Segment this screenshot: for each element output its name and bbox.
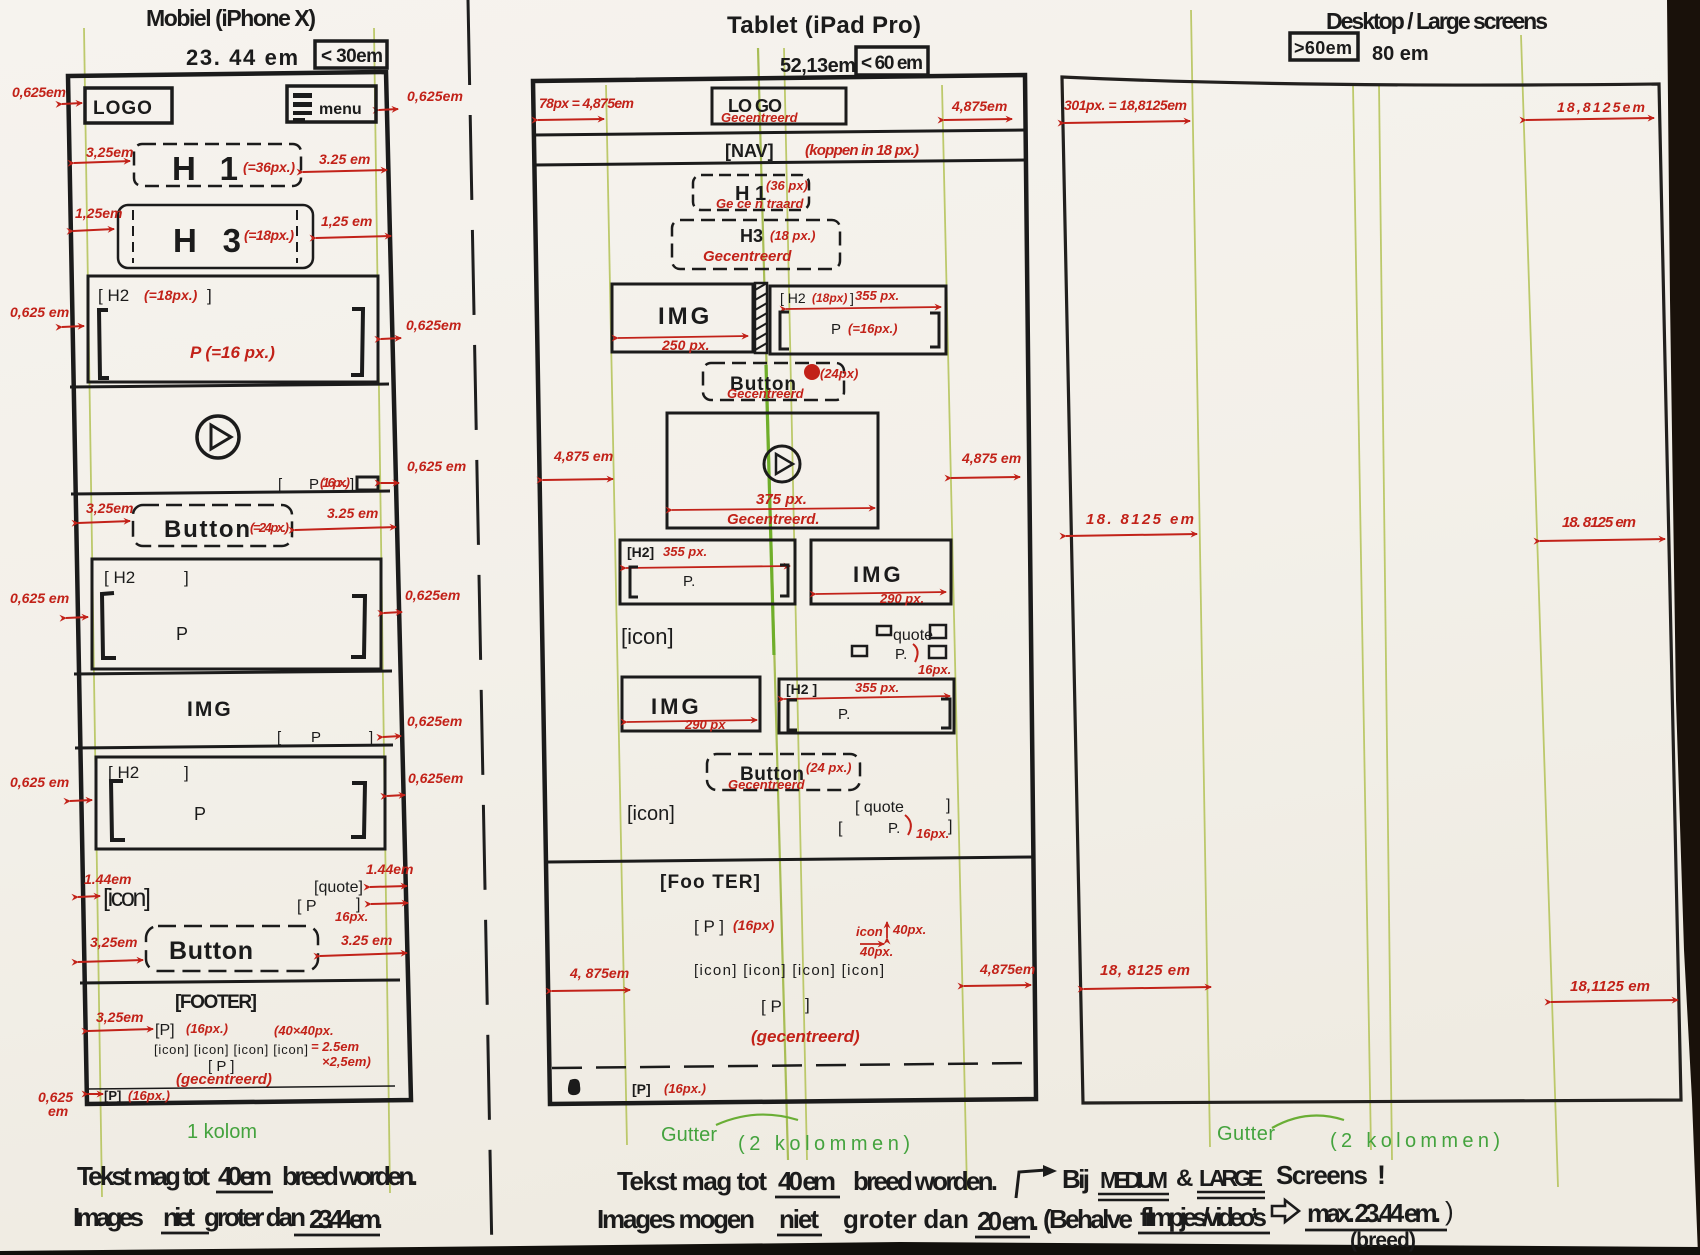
svg-text:LARGE: LARGE — [1199, 1165, 1263, 1191]
tablet breakpoint box — [856, 47, 928, 75]
paragraph brackets — [99, 310, 109, 378]
svg-text:(=18px.): (=18px.) — [144, 287, 198, 303]
tablet footer divider — [548, 857, 1033, 862]
svg-text:niet: niet — [779, 1204, 819, 1234]
svg-text:Mobiel (iPhone X): Mobiel (iPhone X) — [146, 5, 316, 31]
svg-text:(40×40px.: (40×40px. — [274, 1023, 334, 1038]
svg-text:P.: P. — [838, 706, 850, 723]
svg-text:[P]: [P] — [632, 1081, 651, 1097]
svg-text:]: ] — [805, 995, 810, 1014]
guide desktop gutter left — [1353, 85, 1371, 1150]
svg-text:0,625 em: 0,625 em — [10, 304, 69, 320]
svg-text:52,13em: 52,13em — [780, 55, 856, 77]
svg-text:MEDIUM: MEDIUM — [1100, 1167, 1168, 1193]
svg-text:[H2 ]: [H2 ] — [786, 681, 817, 697]
svg-text:= 2.5em: = 2.5em — [311, 1039, 360, 1054]
svg-text:(=36px.): (=36px.) — [243, 159, 295, 175]
svg-text:LOGO: LOGO — [93, 98, 153, 119]
mobile breakpoint box — [315, 41, 387, 68]
svg-text:H 3: H 3 — [173, 222, 241, 259]
svg-text:[ P ]: [ P ] — [694, 917, 724, 936]
H3 dashed box — [118, 205, 313, 268]
svg-text:40 em: 40 em — [218, 1161, 272, 1191]
svg-text:[NAV]: [NAV] — [725, 141, 774, 161]
hamburger icon — [293, 93, 312, 98]
svg-text:(=18px.): (=18px.) — [244, 227, 294, 243]
svg-text:(koppen in 18 px.): (koppen in 18 px.) — [805, 142, 919, 159]
svg-text:P.: P. — [888, 820, 900, 837]
svg-text:menu: menu — [319, 101, 362, 118]
svg-text:[icon] [icon] [icon] [icon]: [icon] [icon] [icon] [icon] — [694, 962, 884, 979]
svg-text:IMG: IMG — [187, 698, 233, 721]
svg-text:P (=16 px.): P (=16 px.) — [190, 343, 275, 362]
svg-text:[P]: [P] — [104, 1088, 121, 1103]
row1: H2+P box — [770, 286, 946, 354]
svg-text:P: P — [176, 624, 188, 644]
H1 dashed box — [134, 144, 301, 186]
row2: H2+P left — [620, 540, 795, 604]
svg-text:&: & — [1176, 1165, 1193, 1192]
H3 dashed box tablet — [672, 220, 840, 269]
dark desk edge right — [1667, 0, 1700, 1255]
svg-text:P: P — [311, 729, 321, 746]
svg-text:>60em: >60em — [1294, 38, 1352, 58]
svg-text:0,625 em: 0,625 em — [10, 590, 69, 606]
mobile frame — [68, 72, 411, 1104]
svg-text:< 30em: < 30em — [321, 46, 383, 67]
dark desk edge bottom — [0, 1242, 1700, 1255]
svg-text:3,25em: 3,25em — [96, 1009, 143, 1025]
svg-text:Desktop / Large screens: Desktop / Large screens — [1326, 8, 1548, 34]
desktop frame — [1062, 77, 1681, 1103]
guide desktop left — [1191, 10, 1210, 1147]
svg-text:P: P — [194, 804, 206, 824]
svg-text:[H2]: [H2] — [627, 544, 654, 560]
svg-text:[quote]: [quote] — [314, 879, 363, 896]
svg-text:[Foo TER]: [Foo TER] — [660, 872, 760, 893]
svg-text:Images mogen: Images mogen — [597, 1204, 755, 1234]
svg-text:(18 px.): (18 px.) — [770, 228, 816, 243]
guide desktop right — [1521, 35, 1558, 1187]
svg-text:[icon]: [icon] — [621, 624, 674, 649]
svg-text:Bij: Bij — [1062, 1164, 1090, 1194]
svg-text:4,875em: 4,875em — [951, 98, 1007, 114]
svg-text:(24 px.): (24 px.) — [806, 760, 852, 775]
svg-text:Gecentreerd: Gecentreerd — [728, 777, 806, 792]
svg-text:Gecentreerd.: Gecentreerd. — [727, 511, 820, 528]
footer bottom row — [88, 1093, 103, 1095]
svg-text:Button: Button — [164, 516, 250, 543]
svg-text:[ H2: [ H2 — [104, 568, 135, 587]
bij medium arrow — [1016, 1170, 1046, 1198]
svg-text:0,625em: 0,625em — [406, 317, 461, 333]
svg-text:20 em.: 20 em. — [977, 1206, 1039, 1236]
svg-text:H 1: H 1 — [172, 150, 238, 187]
svg-text:(24px): (24px) — [820, 366, 858, 381]
svg-text:(16px.): (16px.) — [128, 1088, 170, 1103]
svg-text:]: ] — [184, 568, 189, 587]
svg-text:3.25 em: 3.25 em — [341, 932, 392, 948]
row1: IMG box — [612, 284, 753, 352]
svg-text:4,875em: 4,875em — [979, 961, 1035, 977]
svg-text:18,1125 em: 18,1125 em — [1570, 978, 1650, 995]
svg-text:16px.: 16px. — [918, 662, 951, 677]
svg-text:]: ] — [850, 290, 854, 306]
svg-text:1,25em: 1,25em — [75, 205, 122, 221]
svg-text:H3: H3 — [740, 226, 763, 246]
line 2 right part: double arrow + max — [1272, 1200, 1299, 1222]
svg-text:]: ] — [369, 729, 373, 746]
img section — [74, 671, 392, 674]
svg-text:3.25 em: 3.25 em — [327, 505, 378, 521]
svg-text:4, 875em: 4, 875em — [569, 965, 629, 981]
row3: H2+P right — [779, 679, 954, 733]
H2+P section box 2 — [92, 559, 381, 669]
guide tablet right — [942, 85, 967, 1190]
svg-text:40px.: 40px. — [859, 944, 893, 959]
guide tablet left — [606, 85, 627, 1145]
svg-text:375 px.: 375 px. — [756, 491, 807, 508]
footer divider — [80, 980, 400, 983]
svg-text:[P]: [P] — [155, 1022, 175, 1039]
svg-text:(=24px.): (=24px.) — [250, 520, 289, 535]
svg-text:0,625 em: 0,625 em — [407, 458, 466, 474]
row3: IMG left — [622, 677, 760, 731]
svg-text:(16px.): (16px.) — [320, 475, 350, 490]
H1 dashed box tablet — [693, 175, 809, 210]
svg-text:[icon] [icon] [icon] [icon]: [icon] [icon] [icon] [icon] — [154, 1042, 308, 1057]
small blob — [568, 1079, 580, 1095]
svg-text:(16px.): (16px.) — [186, 1021, 228, 1036]
svg-text:Gutter: Gutter — [1217, 1123, 1275, 1145]
svg-text:Tekst mag tot: Tekst mag tot — [77, 1161, 210, 1191]
tablet logo box — [712, 88, 846, 124]
svg-text:18. 8125 em: 18. 8125 em — [1562, 514, 1636, 531]
guide mobile right — [374, 28, 390, 1193]
svg-text:3,25em: 3,25em — [86, 500, 133, 516]
svg-text:P.: P. — [683, 573, 695, 590]
svg-text:(16px): (16px) — [733, 917, 775, 933]
svg-text:[ H2: [ H2 — [780, 290, 806, 306]
H2+P section box 3 — [96, 757, 385, 849]
svg-text:< 60 em: < 60 em — [861, 53, 923, 74]
button 2 dashed — [146, 926, 318, 971]
nav band — [534, 130, 1026, 135]
svg-text:355 px.: 355 px. — [855, 680, 899, 695]
svg-text:250 px.: 250 px. — [661, 337, 709, 353]
svg-text:301px. = 18,8125em: 301px. = 18,8125em — [1064, 97, 1187, 113]
svg-text:): ) — [1445, 1196, 1454, 1226]
svg-text:18, 8125 em: 18, 8125 em — [1100, 962, 1190, 979]
svg-text:(breed): (breed) — [1350, 1229, 1416, 1252]
svg-text:4,875 em: 4,875 em — [961, 450, 1021, 466]
svg-text:(18px): (18px) — [812, 291, 847, 305]
menu box — [287, 86, 376, 122]
svg-text:[ P: [ P — [761, 997, 782, 1016]
svg-text:0,625em: 0,625em — [407, 713, 462, 729]
svg-text:]: ] — [184, 763, 189, 782]
svg-text:!: ! — [1377, 1160, 1386, 1190]
svg-text:40px.: 40px. — [892, 922, 926, 937]
guide tablet gutter left — [758, 48, 788, 1160]
tablet button 2 dashed — [707, 754, 860, 790]
svg-text:Tablet (iPad Pro): Tablet (iPad Pro) — [727, 12, 921, 39]
svg-text:(gecentreerd): (gecentreerd) — [176, 1071, 272, 1088]
guide mobile left — [84, 28, 102, 1197]
dashed divider — [552, 1063, 1034, 1068]
guide tablet gutter right — [784, 48, 807, 1160]
svg-text:4,875 em: 4,875 em — [553, 448, 613, 464]
svg-text:0,625em: 0,625em — [407, 88, 463, 104]
svg-text:IMG: IMG — [658, 303, 712, 330]
svg-text:23.44 em.: 23.44 em. — [309, 1204, 383, 1234]
video box tablet — [667, 413, 878, 528]
svg-text:Ge ce n traard: Ge ce n traard — [716, 196, 804, 211]
svg-text:[FOOTER]: [FOOTER] — [175, 992, 257, 1013]
svg-text:niet: niet — [163, 1202, 195, 1232]
svg-text:IMG: IMG — [651, 694, 702, 719]
button 1 dashed — [133, 505, 292, 546]
svg-text:355 px.: 355 px. — [855, 288, 899, 303]
svg-text:355 px.: 355 px. — [663, 544, 707, 559]
svg-text:IMG: IMG — [853, 562, 904, 587]
svg-text:16px.: 16px. — [335, 909, 368, 924]
svg-text:290 px: 290 px — [684, 717, 726, 732]
row2: IMG right — [811, 540, 951, 604]
svg-text:3,25em: 3,25em — [90, 934, 137, 950]
svg-text:0,625em: 0,625em — [408, 770, 463, 786]
svg-text:1 kolom: 1 kolom — [187, 1121, 257, 1143]
svg-text:16px.: 16px. — [916, 826, 949, 841]
svg-text:breed worden.: breed worden. — [282, 1161, 418, 1191]
svg-text:icon: icon — [856, 924, 883, 939]
svg-text:Gecentreerd: Gecentreerd — [703, 248, 792, 265]
svg-text:em: em — [48, 1103, 68, 1119]
svg-text:quote: quote — [893, 627, 933, 644]
svg-text:[ quote: [ quote — [855, 799, 904, 816]
svg-text:]: ] — [207, 286, 212, 305]
svg-text:×2,5em): ×2,5em) — [322, 1054, 371, 1069]
svg-text:1.44em: 1.44em — [366, 861, 413, 877]
svg-text:breed worden.: breed worden. — [853, 1166, 998, 1196]
svg-text:[ P: [ P — [297, 898, 317, 915]
vivid marker segment on gutter — [766, 365, 774, 655]
desktop breakpoint box — [1290, 33, 1358, 60]
svg-text:40 em: 40 em — [778, 1166, 836, 1196]
svg-text:78px = 4,875em: 78px = 4,875em — [539, 95, 634, 111]
svg-text:Gecentreerd: Gecentreerd — [727, 386, 805, 401]
svg-text:groter dan: groter dan — [843, 1204, 969, 1234]
svg-text:]: ] — [946, 797, 950, 814]
H2+P section box — [88, 276, 378, 382]
svg-text:Button: Button — [169, 937, 253, 965]
video section divider top — [70, 384, 389, 387]
svg-text:(Behalve: (Behalve — [1043, 1204, 1133, 1234]
svg-text:(gecentreerd): (gecentreerd) — [751, 1027, 860, 1046]
svg-text:(36 px): (36 px) — [766, 178, 808, 193]
svg-text:P: P — [831, 321, 841, 338]
drag divider hatched — [755, 283, 767, 353]
svg-text:[icon]: [icon] — [103, 884, 151, 912]
video section divider bottom — [71, 491, 390, 494]
svg-text:(=16px.): (=16px.) — [848, 321, 898, 336]
svg-text:Tekst mag tot: Tekst mag tot — [617, 1166, 767, 1196]
svg-text:[ H2: [ H2 — [98, 286, 129, 305]
column separator dashed line — [468, 0, 492, 1255]
tablet button 1 dashed — [703, 363, 844, 400]
svg-text:0,625 em: 0,625 em — [10, 774, 69, 790]
svg-text:]: ] — [948, 818, 952, 835]
svg-text:Gutter: Gutter — [661, 1124, 717, 1146]
svg-text:P.: P. — [895, 646, 907, 663]
svg-text:80 em: 80 em — [1372, 43, 1429, 65]
svg-text:groter dan: groter dan — [204, 1202, 306, 1232]
svg-text:[icon]: [icon] — [627, 803, 675, 825]
svg-text:Gecentreerd: Gecentreerd — [721, 110, 799, 125]
svg-text:0,625em: 0,625em — [12, 84, 66, 100]
svg-text:(16px.): (16px.) — [664, 1081, 706, 1096]
play button — [197, 416, 239, 458]
svg-text:Screens: Screens — [1276, 1160, 1368, 1190]
guide desktop gutter right — [1379, 85, 1392, 1160]
svg-text:[: [ — [838, 820, 843, 837]
tablet frame — [533, 75, 1036, 1104]
logo box — [85, 88, 172, 123]
svg-text:Images: Images — [73, 1202, 144, 1232]
svg-text:1,25 em: 1,25 em — [321, 213, 372, 229]
svg-text:max. 23.44 em.: max. 23.44 em. — [1307, 1198, 1441, 1228]
svg-text:0,625em: 0,625em — [405, 587, 460, 603]
svg-text:290 px.: 290 px. — [879, 591, 924, 606]
svg-text:3,25em: 3,25em — [86, 144, 133, 160]
svg-text:filmpjes/video’s: filmpjes/video’s — [1140, 1202, 1267, 1232]
svg-text:3.25 em: 3.25 em — [319, 151, 370, 167]
